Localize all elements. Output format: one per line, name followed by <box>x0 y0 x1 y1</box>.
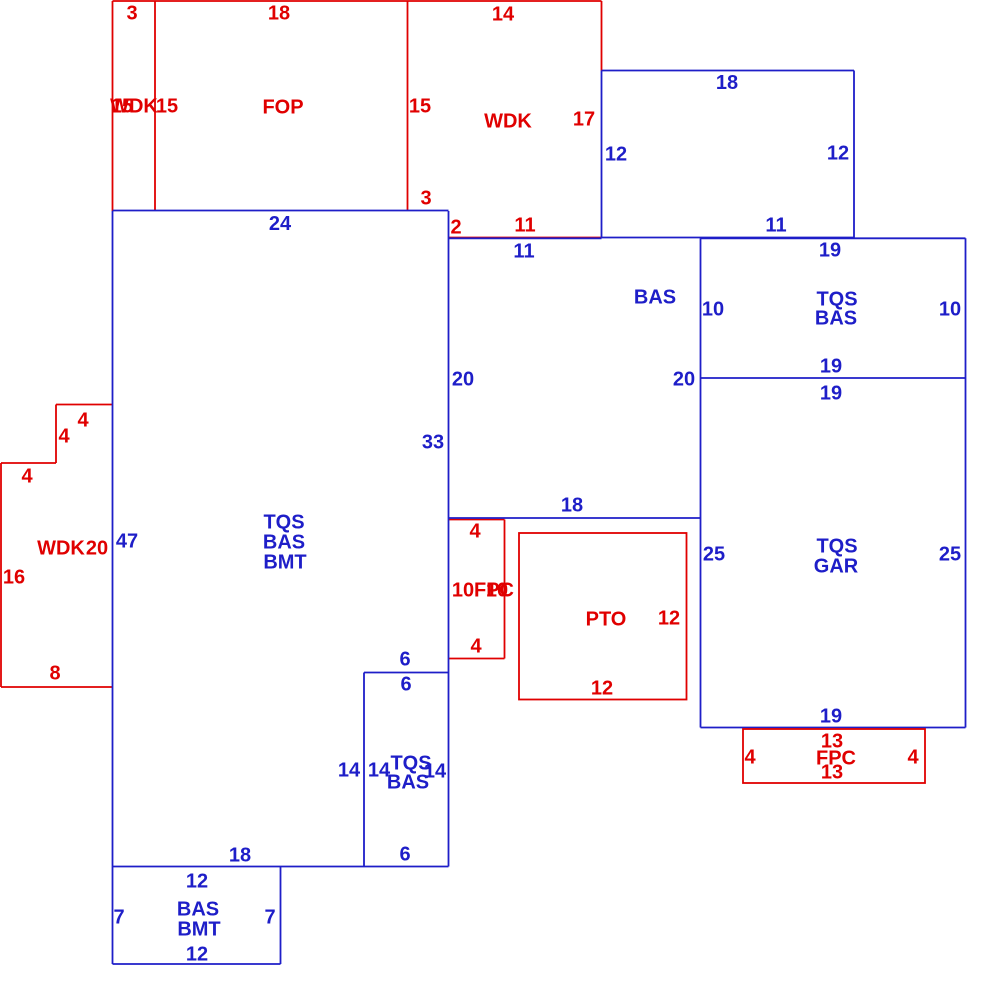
wire main box right 33ft <box>448 211 450 867</box>
svg-text:8: 8 <box>49 662 60 684</box>
wire stairs bottom <box>1 686 113 688</box>
svg-text:19: 19 <box>820 705 842 727</box>
wire FPC mid bottom <box>449 658 505 660</box>
wire TQS-BAS top 19ft <box>701 237 966 239</box>
wire top-right box left 12ft <box>601 71 603 238</box>
svg-text:18: 18 <box>561 494 583 516</box>
svg-text:6: 6 <box>399 843 410 865</box>
svg-text:20: 20 <box>452 368 474 390</box>
wire main box left 47ft <box>112 211 114 964</box>
wire FOP right / WDK left <box>407 1 409 211</box>
svg-text:25: 25 <box>703 543 725 565</box>
wire BAS top edge 11ft <box>449 237 602 239</box>
svg-text:12: 12 <box>827 142 849 164</box>
wire main bottom 18ft+6ft <box>113 866 449 868</box>
svg-text:20: 20 <box>86 537 108 559</box>
svg-text:4: 4 <box>58 425 70 447</box>
wire TQS-BAS left / GAR left <box>700 238 702 727</box>
svg-text:16: 16 <box>3 566 25 588</box>
svg-text:4: 4 <box>77 409 89 431</box>
wire WDK bottom 11ft <box>449 237 602 239</box>
wire BAS bottom 18ft <box>449 517 701 519</box>
rect FPC bottom porch <box>743 729 925 783</box>
svg-text:12: 12 <box>658 607 680 629</box>
svg-text:15: 15 <box>156 95 178 117</box>
svg-text:TQS: TQS <box>816 535 857 557</box>
svg-text:10: 10 <box>486 579 508 601</box>
svg-text:18: 18 <box>716 72 738 94</box>
svg-text:18: 18 <box>268 2 290 24</box>
wire main box top 24ft <box>113 210 449 212</box>
svg-text:24: 24 <box>269 213 292 235</box>
svg-text:WDK: WDK <box>110 95 158 117</box>
wire FPC mid right <box>504 520 506 659</box>
svg-text:WDK: WDK <box>37 537 85 559</box>
svg-text:3: 3 <box>420 187 431 209</box>
wire WDK strip left <box>112 1 114 211</box>
svg-text:4: 4 <box>21 465 33 487</box>
wire GAR bottom 19ft <box>701 727 966 729</box>
svg-text:15: 15 <box>409 95 431 117</box>
svg-text:12: 12 <box>186 870 208 892</box>
svg-text:47: 47 <box>116 530 138 552</box>
wire stairs step top <box>56 404 113 406</box>
svg-text:BAS: BAS <box>263 531 305 553</box>
svg-text:BAS: BAS <box>634 286 676 308</box>
rect PTO patio <box>519 533 687 700</box>
wire WDK strip right / FOP left <box>154 1 156 211</box>
svg-text:19: 19 <box>820 355 842 377</box>
svg-text:13: 13 <box>821 761 843 783</box>
svg-text:4: 4 <box>744 746 756 768</box>
wire TQS-BAS right / GAR right <box>965 238 967 727</box>
svg-text:11: 11 <box>513 240 534 262</box>
wire BAS-GAR divider 19ft <box>701 377 966 379</box>
svg-text:11: 11 <box>514 214 535 236</box>
wire top-right box bottom 11ft <box>602 237 855 239</box>
svg-text:BAS: BAS <box>815 307 857 329</box>
svg-text:6: 6 <box>400 673 411 695</box>
svg-text:PTO: PTO <box>586 608 627 630</box>
svg-text:TQS: TQS <box>263 511 304 533</box>
wire stairs step lower <box>1 462 56 464</box>
svg-text:11: 11 <box>765 214 786 236</box>
svg-text:14: 14 <box>492 3 515 25</box>
svg-text:14: 14 <box>338 759 361 781</box>
wire FPC mid top <box>449 519 505 521</box>
svg-text:12: 12 <box>186 943 208 965</box>
wire top-right box top 18ft <box>602 70 855 72</box>
svg-text:2: 2 <box>450 216 461 238</box>
svg-text:20: 20 <box>673 368 695 390</box>
svg-text:10: 10 <box>702 298 724 320</box>
svg-text:BMT: BMT <box>263 551 306 573</box>
wire lower TQS-BAS left 14ft <box>363 673 365 867</box>
svg-text:7: 7 <box>113 906 124 928</box>
svg-text:BMT: BMT <box>177 918 220 940</box>
svg-text:4: 4 <box>469 520 481 542</box>
wire BAS-BMT right 7ft <box>280 867 282 965</box>
svg-text:BAS: BAS <box>177 898 219 920</box>
wire top edge WDK strip-FOP-WDK <box>113 0 602 2</box>
wire top-right box right 12ft <box>853 71 855 238</box>
svg-text:6: 6 <box>399 648 410 670</box>
svg-text:33: 33 <box>422 431 444 453</box>
svg-text:17: 17 <box>573 108 595 130</box>
svg-text:18: 18 <box>229 844 251 866</box>
svg-text:12: 12 <box>591 677 613 699</box>
svg-text:7: 7 <box>264 906 275 928</box>
wire WDK right (red part) <box>601 1 603 71</box>
wire stairs step vertical <box>55 405 57 464</box>
wire lower TQS-BAS top 6ft <box>364 672 449 674</box>
svg-text:FOP: FOP <box>262 96 303 118</box>
svg-text:GAR: GAR <box>814 555 859 577</box>
svg-text:4: 4 <box>470 635 482 657</box>
svg-text:19: 19 <box>819 239 841 261</box>
wire BAS-BMT bottom 12ft <box>113 963 281 965</box>
svg-text:19: 19 <box>820 382 842 404</box>
svg-text:12: 12 <box>605 143 627 165</box>
svg-text:WDK: WDK <box>484 110 532 132</box>
svg-text:BAS: BAS <box>387 771 429 793</box>
svg-text:4: 4 <box>907 746 919 768</box>
svg-text:10: 10 <box>452 579 474 601</box>
wire stairs left edge <box>0 463 2 687</box>
svg-text:25: 25 <box>939 543 961 565</box>
svg-text:3: 3 <box>126 2 137 24</box>
svg-text:10: 10 <box>939 298 961 320</box>
